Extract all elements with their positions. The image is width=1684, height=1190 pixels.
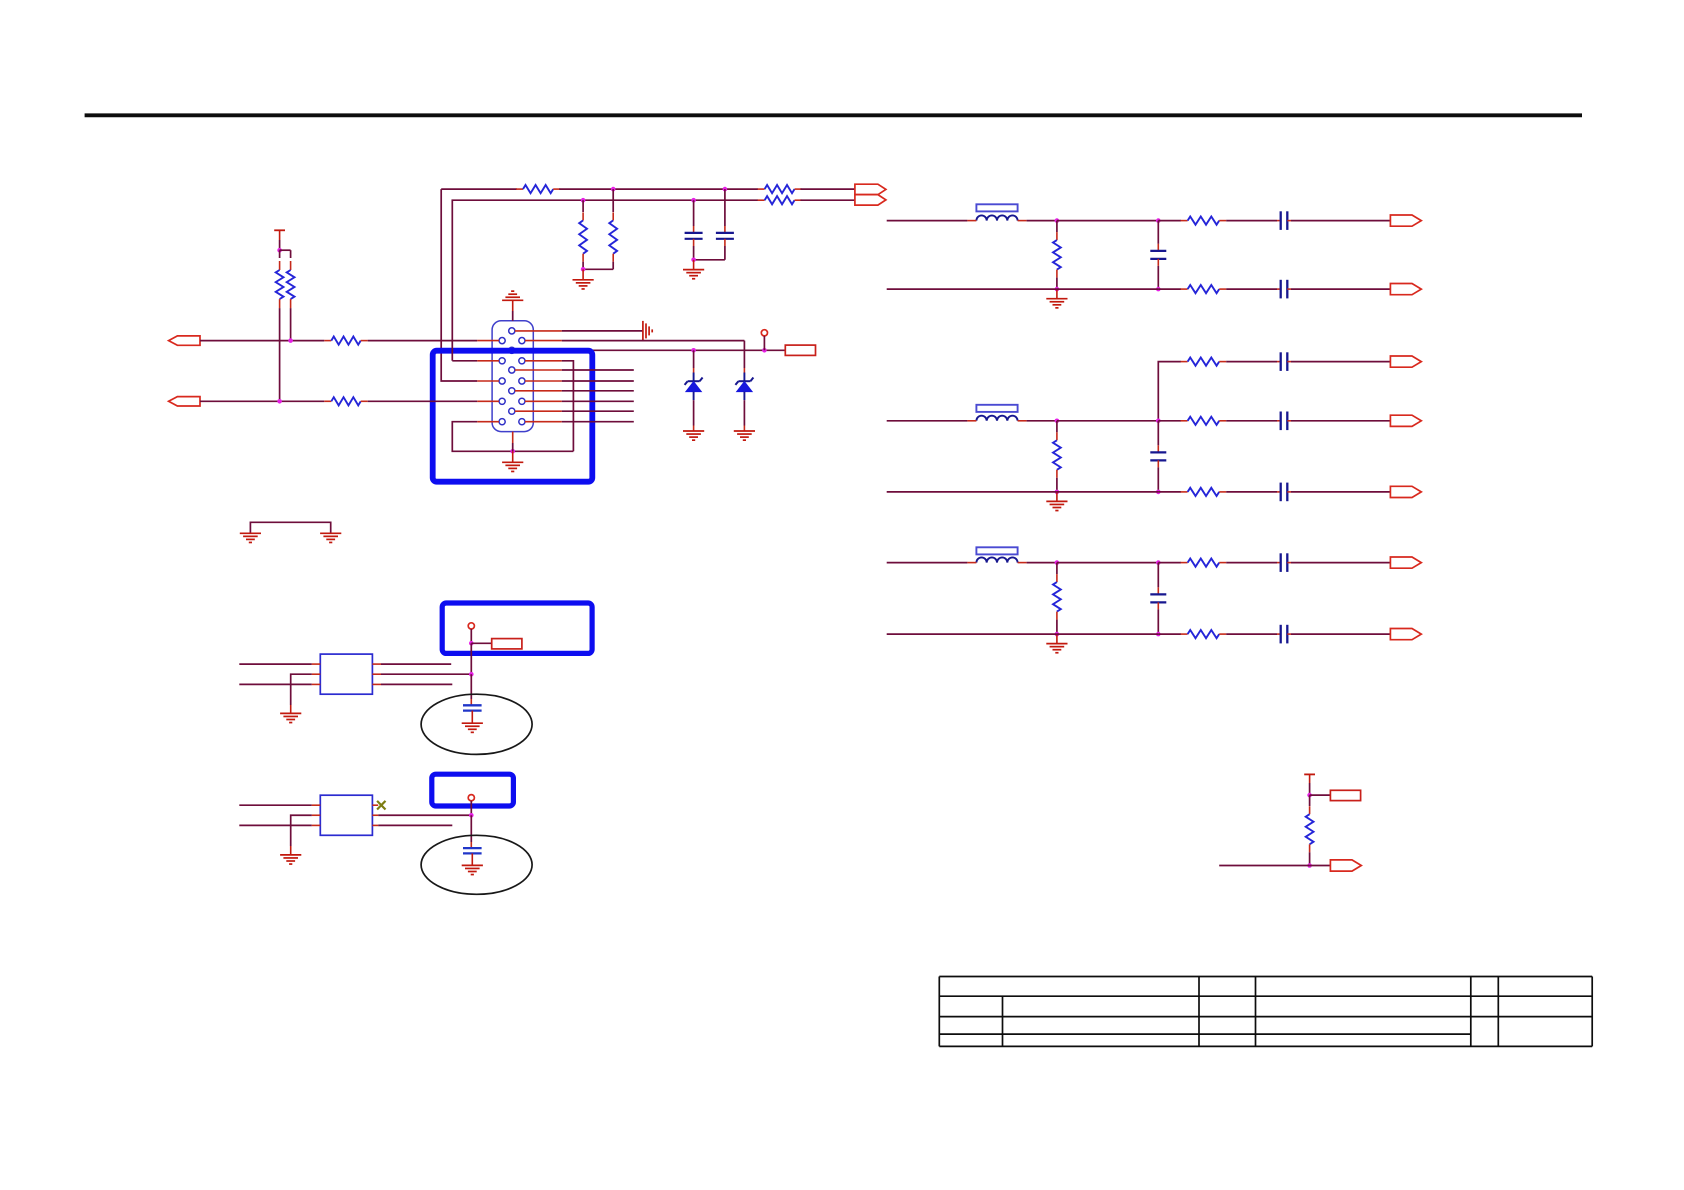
ground left of pair [240,533,261,542]
capacitor filter2 series out y=491.9 [1277,483,1291,502]
ground under connector [502,462,523,471]
pin stub U1 right y=684.4 [372,683,381,685]
ground under C1 [683,260,704,279]
pin stub U2 right y=805.2 [372,804,378,806]
double output port (bus) [855,184,886,205]
wire filter2 line B left [887,491,1057,493]
wire filter2 out1 y=491.9 [1226,491,1277,493]
wire R6 bottom [612,262,614,270]
wire filter1 A to series R [1158,220,1181,222]
wire filter3 line A left [887,562,968,564]
wire filter3 A mid1 [1027,562,1057,564]
wire R6 top [612,189,614,212]
wire filter1 shunt C bottom [1157,266,1159,289]
wire top bus 1 left [441,188,517,190]
resistor R8 series bus1 [758,185,802,193]
junction filter3 A / shunt R [1055,560,1060,565]
wire C2 bottom [724,246,726,260]
resistor filter1 shunt [1053,232,1061,278]
capacitor filter3 series out y=562.6 [1277,553,1291,572]
output port filter2 y=420.8 [1390,415,1421,426]
wire input 2 [200,400,324,402]
junction R7 ground node [581,267,586,272]
wire filter2 out2 y=420.8 [1291,420,1390,422]
wire pin-10 net to no-connect / net label [562,349,786,351]
wire U2 left y=805.2 [239,804,311,806]
zener diode D1 [685,350,703,431]
resistor filter3 series out y=562.6 [1181,559,1227,567]
power symbol bottom right [1304,773,1315,775]
wire filter2 shunt C top [1157,421,1159,446]
wire filter2 line A left [887,420,968,422]
wire filter3 shunt C bottom [1157,609,1159,634]
ground filter3 [1046,634,1067,653]
connector J1 pin circles (15 pins) [499,328,525,425]
wire filter1 out2 y=220.6 [1291,220,1390,222]
ferrite bead inductor filter3 [967,547,1026,562]
stem to ground [512,451,514,462]
wire ground bridge [250,522,330,533]
wire bus2 to port [801,199,855,201]
resistor R2 [287,261,295,308]
resistor filter2 series out y=491.9 [1181,488,1227,496]
ellipse marker sub2 [421,835,532,894]
power symbol VCC [274,229,285,231]
junction pull-up bottom [1307,863,1312,868]
wire pin-1 row to zener D2 [562,340,745,342]
resistor filter2 series out y=420.8 [1181,417,1227,425]
component box U2 [320,795,372,835]
pin stub U1 left y=684.4 [312,683,321,685]
pin stub U2 right y=815.25 [372,814,378,816]
wire R3 to pin 1 [368,340,478,342]
wire pin row y=421.7 [562,421,634,423]
ground right of pair [320,533,341,542]
wire filter3 line B mid [1057,633,1158,635]
wire pin-11 to chassis ground [562,330,643,332]
wire bottom right row [1219,865,1309,867]
input port net 1 [169,336,200,345]
wire pin row y=390.8 [562,390,634,392]
wire R6 to R7 node [583,268,613,270]
capacitor sub2 (in ellipse) [463,842,482,865]
capacitor filter3 shunt [1150,587,1166,609]
output port filter2 top [1390,356,1421,367]
junction bus1 / R6 [611,187,616,192]
wire top bus 2 [452,200,758,361]
ground sub1 cap [462,723,483,732]
highlight box sub-circuit 1 [442,603,592,653]
wire to label sub1 [471,642,491,644]
ground U1 [280,713,301,722]
wire filter2 shunt R bottom [1056,478,1058,492]
wire filter2 line B to series R [1158,491,1181,493]
wire vertical2 to pin row [452,360,477,362]
wire R1 top [279,250,281,258]
ground sub2 cap [462,865,483,874]
junction filter2 B / shunt R [1055,490,1060,495]
junction filter1 B / shunt C [1156,287,1161,292]
wire filter3 out1 y=634.1 [1226,633,1277,635]
junction filter2 B / shunt C [1156,490,1161,495]
wire sub2 to cap [470,815,472,842]
wire filter2 top output branch [1158,362,1181,421]
junction sub1 mid pin [469,672,474,677]
junction shield ground [510,449,515,454]
ground filter2 [1046,492,1067,511]
highlight box sub-circuit 2 [432,774,514,806]
stem nc sub2 [470,801,472,815]
wire filter1 line B left [887,288,1057,290]
wire U2 mid pin to ground [291,815,312,846]
capacitor C1 [685,226,703,246]
power stem [1309,774,1311,783]
wire R bottom [1309,852,1311,865]
stem [290,705,292,713]
chassis ground [643,321,652,341]
wire filter1 A mid2 [1057,220,1158,222]
pin stub U1 right y=664.1 [372,663,381,665]
wire U1 right top [381,663,451,665]
junction filter2 A / shunt R [1055,419,1060,424]
wire top bus 1 right [559,188,758,190]
capacitor filter1 shunt [1150,244,1166,266]
page border line [85,113,1582,117]
wire stem to junction [512,443,514,451]
wire U1 left y=684.4 [239,683,311,685]
junction filter1 B / shunt R [1055,287,1060,292]
wire U2 right mid [378,814,471,816]
wire U2 left y=825.4 [239,824,311,826]
power stem [279,230,281,240]
resistor filter3 series out y=634.1 [1181,630,1227,638]
pin stub U2 left mid [312,814,321,816]
junction filter1 A / shunt C [1156,218,1161,223]
wire branch to R2 [280,249,291,251]
highlight box around VGA connector [433,351,593,482]
capacitor sub1 (in ellipse) [463,699,482,723]
capacitor C2 [716,226,734,246]
wire U1 right mid [381,673,471,675]
net label (row 350) [785,345,815,355]
junction power node [277,248,282,253]
no-connect circle sub2 [468,795,474,801]
wire filter2 out2 y=491.9 [1291,491,1390,493]
output port bottom right [1330,860,1361,871]
connector bottom stem [512,432,514,443]
capacitor filter2 series out top [1277,352,1291,371]
ground under D1 [683,431,704,440]
junction filter2 A / shunt C [1156,419,1161,424]
wire to R top [1309,795,1311,806]
resistor R4 series [324,397,367,405]
wire filter1 shunt R top [1056,221,1058,233]
resistor filter2 shunt [1053,432,1061,478]
zener diode D2 [735,341,753,431]
resistor R9 series bus2 [758,196,802,204]
wire pin row 360.8 to bottom loop [562,361,574,452]
junction C1 ground node [691,258,696,263]
junction pull-up top [1307,793,1312,798]
wire filter1 line A left [887,220,968,222]
wire R2 bottom to row [290,308,292,341]
wire filter1 A mid1 [1027,220,1057,222]
junction R1 / row2 [277,399,282,404]
junction bus2 / R7 [581,198,586,203]
wire U2 right bottom [378,824,452,826]
junction filter1 A / shunt R [1055,218,1060,223]
resistor R3 series [324,337,367,345]
wire filter3 shunt C top [1157,563,1159,588]
VGA connector J1 (DB15) body [492,321,533,432]
ferrite bead inductor filter2 [967,405,1026,421]
stem no-connect [763,336,765,350]
resistor filter1 series out y=289.1 [1181,285,1227,293]
capacitor filter2 series out y=420.8 [1277,412,1291,431]
wire filter2 out1 y=420.8 [1226,420,1277,422]
wire filter1 out1 y=220.6 [1226,220,1277,222]
wire power to junction [1309,783,1311,795]
output port filter2 y=491.9 [1390,486,1421,497]
wire filter3 shunt R bottom [1056,620,1058,635]
wire R4 to pin 2 [368,400,478,402]
capacitor filter1 series out y=289.1 [1277,280,1291,299]
resistor filter1 series out y=220.6 [1181,217,1227,225]
wire filter3 out2 y=634.1 [1291,633,1390,635]
no-connect circle [761,330,767,336]
wire sub1 to cap [470,674,472,699]
connector J1 pin lead stubs [477,331,562,422]
capacitor filter2 shunt [1150,445,1166,467]
junction row / zener D1 [691,348,696,353]
wire filter3 line B left [887,633,1057,635]
wire to output port [1310,865,1331,867]
wire R2 top [290,250,292,258]
junction filter3 B / shunt C [1156,632,1161,637]
junction R2 / row1 [288,338,293,343]
resistor pull-up bottom right [1306,806,1314,852]
output port filter3 y=634.1 [1390,629,1421,640]
wire filter3 out1 y=562.6 [1226,562,1277,564]
no-connect X mark U2 pin [377,801,385,810]
no-connect circle sub1 [468,623,474,629]
ground filter1 [1046,289,1067,308]
wire filter3 A to series R [1158,562,1181,564]
junction sub1 label [469,641,474,646]
resistor R5 series top [516,185,560,193]
wire pin row y=381 [562,380,634,382]
wire filter2 out2 top [1291,361,1390,363]
wire ground to connector top [512,311,514,321]
ferrite bead inductor filter1 [967,204,1026,220]
wire bottom shield loop [452,422,573,452]
pin stub U1 left y=664.1 [312,663,321,665]
ground under R7 [573,269,594,289]
input port net 2 [169,397,200,406]
wire C2 to C1 node [694,259,725,261]
wire to net label [1310,794,1331,796]
wire filter3 shunt R top [1056,563,1058,575]
junction bus1 / C2 [723,187,728,192]
pin stub U1 left mid [312,673,321,675]
resistor R1 [276,261,284,308]
resistor R7 pull-down [579,212,587,261]
pin stub U1 right y=674.2 [372,673,381,675]
resistor R6 pull-down [609,212,617,261]
wire vertical from top bus to pin row 381 [441,189,477,381]
wire filter1 shunt R bottom [1056,278,1058,290]
output port filter3 y=562.6 [1390,557,1421,568]
wire U1 right bottom [381,683,452,685]
wire bus1 to port [801,188,855,190]
wire pin row y=370 [562,369,634,371]
wire R7 bottom [582,262,584,270]
wire filter2 A mid1 [1027,420,1057,422]
junction no-connect stem [762,348,767,353]
wire U1 left y=664.1 [239,663,311,665]
wire filter3 line B to series R [1158,633,1181,635]
wire filter1 shunt C top [1157,221,1159,244]
wire filter2 line B mid [1057,491,1158,493]
ground U2 [280,855,301,864]
wire filter2 shunt R top [1056,421,1058,433]
net label bottom right [1330,790,1360,800]
wire filter2 shunt C bottom [1157,467,1159,492]
capacitor filter1 series out y=220.6 [1277,211,1291,230]
wire U1 mid pin to ground [291,674,312,705]
pin stub U2 right y=825.4 [372,824,378,826]
wire pin row y=401.3 [562,400,634,402]
component box U1 [320,654,372,694]
junction sub2 mid pin [469,813,474,818]
pin stub U2 left y=825.4 [312,824,321,826]
resistor filter3 shunt [1053,574,1061,620]
wire filter1 line B to series R [1158,288,1181,290]
wire filter2 out1 top [1226,361,1277,363]
wire filter2 A mid2 [1057,420,1158,422]
wire input 1 [200,340,324,342]
pin stub U2 left y=805.2 [312,804,321,806]
net label sub1 [492,639,522,649]
wire C1 top [693,200,695,226]
wire filter3 A mid2 [1057,562,1158,564]
wire sub1 down [470,643,472,674]
wire pin row y=411.2 [562,410,634,412]
stem [290,846,292,855]
wire filter1 out1 y=289.1 [1226,288,1277,290]
wire power to junction [279,240,281,250]
stem nc sub1 [470,629,472,643]
title block table [939,977,1592,1047]
ellipse marker sub1 [421,694,532,754]
wire filter1 line B mid [1057,288,1158,290]
resistor filter2 series out top [1181,358,1227,366]
junction bus2 / C1 [691,198,696,203]
wire filter3 out2 y=562.6 [1291,562,1390,564]
wire C2 top [724,189,726,226]
junction filter3 A / shunt C [1156,560,1161,565]
output port filter1 y=220.6 [1390,215,1421,226]
wire R1 bottom to row [279,308,281,401]
capacitor filter3 series out y=634.1 [1277,625,1291,644]
junction filter3 B / shunt R [1055,632,1060,637]
ground under D2 [734,431,755,440]
wire R7 top [582,200,584,212]
wire filter2 A to series R [1158,420,1181,422]
wire filter1 out2 y=289.1 [1291,288,1390,290]
inverted ground above connector [502,291,523,300]
wire C1 bottom [693,246,695,260]
stem ground [512,300,514,311]
output port filter1 y=289.1 [1390,284,1421,295]
